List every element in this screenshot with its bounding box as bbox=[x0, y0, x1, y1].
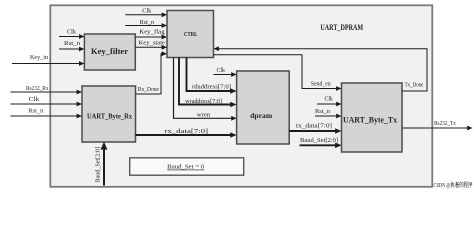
svg-text:CSDN @执着的程序: CSDN @执着的程序 bbox=[434, 181, 473, 189]
wire Rs232_Tx output bbox=[402, 120, 473, 131]
wire Rs232_Rx into UART_Byte_Rx bbox=[11, 85, 83, 95]
bus rdaddress[7:0] from CTRL to dpram bbox=[187, 58, 237, 94]
wire Key_flag from Key_filter to CTRL bbox=[135, 29, 167, 40]
module title UART_DPRAM bbox=[320, 23, 363, 32]
svg-text:Key_flag: Key_flag bbox=[139, 29, 165, 36]
svg-text:Rst_n: Rst_n bbox=[28, 107, 44, 114]
svg-text:Baud_Set[2:0]: Baud_Set[2:0] bbox=[96, 147, 102, 183]
annotation box Baud_Set = 0 bbox=[130, 158, 244, 175]
wire Rst_n stub into CTRL bbox=[125, 19, 167, 28]
svg-text:UART_DPRAM: UART_DPRAM bbox=[320, 23, 363, 32]
bus rx_data[7:0] from UART_Byte_Rx to dpram bbox=[136, 128, 237, 138]
svg-text:Baud_Set = 0: Baud_Set = 0 bbox=[167, 164, 204, 171]
wire wren from CTRL to dpram bbox=[174, 58, 237, 121]
svg-text:wren: wren bbox=[197, 112, 211, 119]
wire Rst_n stub into Key_filter bbox=[59, 40, 84, 51]
block UART_Byte_Tx bbox=[342, 83, 403, 152]
svg-text:Clk: Clk bbox=[67, 29, 77, 36]
svg-text:Rx_Done: Rx_Done bbox=[138, 86, 159, 93]
svg-text:Clk: Clk bbox=[142, 7, 152, 14]
svg-text:tx_data[7:0]: tx_data[7:0] bbox=[296, 123, 332, 130]
svg-text:Baud_Set[2:0]: Baud_Set[2:0] bbox=[300, 137, 338, 144]
wire Key_in into Key_filter bbox=[12, 54, 84, 66]
bus wraddress[7:0] from CTRL to dpram bbox=[179, 58, 237, 108]
outer module box UART_DPRAM bbox=[50, 5, 432, 187]
bus Baud_Set[2:0] stub into UART_Byte_Tx bbox=[300, 137, 342, 148]
wire Tx_Done feedback from UART_Byte_Tx to CTRL bbox=[214, 46, 428, 91]
svg-text:Rs232_Rx: Rs232_Rx bbox=[26, 85, 49, 92]
svg-text:rx_data[7:0]: rx_data[7:0] bbox=[164, 128, 208, 135]
wire Send_en from CTRL to UART_Byte_Tx bbox=[214, 55, 342, 91]
wire Clk stub into UART_Byte_Tx bbox=[317, 95, 342, 106]
svg-text:rdaddress[7:0]: rdaddress[7:0] bbox=[192, 84, 231, 91]
svg-text:Key_in: Key_in bbox=[30, 54, 49, 61]
svg-text:Rs232_Tx: Rs232_Tx bbox=[434, 120, 456, 127]
svg-text:CTRL: CTRL bbox=[184, 32, 197, 38]
svg-text:Clk: Clk bbox=[29, 96, 40, 103]
svg-text:Clk: Clk bbox=[325, 95, 334, 102]
svg-text:wraddress[7:0]: wraddress[7:0] bbox=[185, 98, 222, 105]
svg-text:UART_Byte_Rx: UART_Byte_Rx bbox=[87, 111, 132, 120]
wire Clk into UART_Byte_Rx bbox=[11, 96, 83, 107]
wire Key_state from Key_filter to CTRL bbox=[135, 40, 167, 50]
svg-text:Key_state: Key_state bbox=[139, 40, 166, 47]
block CTRL bbox=[167, 11, 214, 58]
wire Clk stub into Key_filter bbox=[59, 29, 84, 39]
block UART_Byte_Rx bbox=[82, 86, 136, 142]
block dpram bbox=[237, 71, 290, 144]
wire Clk stub into CTRL bbox=[125, 7, 167, 17]
wire Rx_Done from UART_Byte_Rx up into CTRL bbox=[136, 51, 168, 94]
svg-text:Rst_n: Rst_n bbox=[140, 19, 155, 26]
bus tx_data[7:0] from dpram to UART_Byte_Tx bbox=[289, 123, 341, 134]
svg-text:Send_en: Send_en bbox=[311, 80, 331, 87]
block Key_filter bbox=[84, 34, 135, 70]
watermark CSDN bbox=[434, 181, 473, 189]
svg-text:Clk: Clk bbox=[217, 67, 226, 74]
wire Clk stub into dpram bbox=[214, 67, 237, 77]
svg-text:Rst_n: Rst_n bbox=[64, 40, 81, 47]
svg-text:Rst_n: Rst_n bbox=[315, 108, 331, 115]
wire Rst_n into UART_Byte_Rx bbox=[11, 107, 83, 118]
wire Rst_n stub into UART_Byte_Tx bbox=[315, 108, 342, 118]
bus Baud_Set[2:0] vertical into UART_Byte_Rx bbox=[96, 142, 108, 186]
svg-text:UART_Byte_Tx: UART_Byte_Tx bbox=[343, 115, 397, 124]
svg-text:dpram: dpram bbox=[250, 111, 273, 120]
svg-text:Key_filter: Key_filter bbox=[91, 47, 128, 56]
svg-text:Tx_Done: Tx_Done bbox=[405, 81, 424, 88]
